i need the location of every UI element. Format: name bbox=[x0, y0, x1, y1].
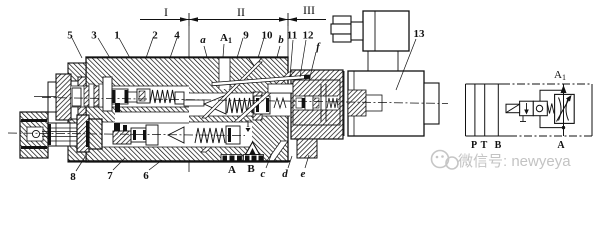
svg-text:e: e bbox=[301, 168, 306, 180]
section line at x=189 bbox=[188, 26, 190, 172]
svg-text:12: 12 bbox=[303, 30, 315, 42]
tall seat sleeve bbox=[103, 77, 112, 111]
lower seat bbox=[226, 126, 240, 144]
svg-text:9: 9 bbox=[243, 30, 249, 42]
A1 flow line bbox=[563, 84, 565, 136]
upper seat flange bbox=[253, 92, 262, 120]
protrusion nut stack bbox=[77, 115, 89, 152]
svg-text:I: I bbox=[164, 5, 168, 19]
svg-text:1: 1 bbox=[114, 30, 120, 42]
left end cap knob bbox=[48, 82, 56, 112]
svg-text:B: B bbox=[495, 140, 502, 151]
upper bore white band right bbox=[189, 93, 290, 116]
upper bore white band left bbox=[71, 86, 189, 107]
svg-text:II: II bbox=[237, 5, 245, 19]
svg-text:a: a bbox=[200, 34, 206, 46]
hydraulic symbol outer box bbox=[466, 84, 593, 136]
svg-text:T: T bbox=[245, 119, 251, 129]
upper spool lands bbox=[112, 89, 128, 104]
valve loop lines bbox=[540, 90, 564, 101]
poppet cone bbox=[204, 95, 226, 114]
solenoid inner parts bbox=[348, 90, 366, 116]
cable gland bbox=[331, 16, 363, 42]
dimension line sections I II III bbox=[140, 13, 326, 26]
check valve in right square bbox=[536, 105, 542, 111]
cap ring hatched bbox=[78, 77, 86, 122]
tank stub below left square bbox=[522, 116, 524, 122]
upper spring 1 bbox=[150, 90, 175, 103]
pilot section III body bbox=[291, 70, 343, 139]
diagonal channel short bbox=[202, 62, 262, 118]
connector neck bbox=[367, 51, 369, 71]
pilot spool bits bbox=[296, 98, 302, 108]
body bottom edge emphasis bbox=[68, 160, 290, 162]
svg-text:4: 4 bbox=[174, 30, 180, 42]
body top edge emphasis bbox=[86, 57, 288, 59]
svg-text:11: 11 bbox=[287, 30, 297, 42]
small spring right bbox=[274, 98, 286, 108]
svg-text:13: 13 bbox=[414, 28, 426, 40]
gland ring stack bbox=[84, 86, 89, 106]
svg-text:7: 7 bbox=[107, 170, 113, 182]
pilot section lower step bbox=[297, 139, 317, 158]
svg-text:A: A bbox=[228, 164, 236, 176]
svg-text:2: 2 bbox=[152, 30, 158, 42]
svg-text:8: 8 bbox=[70, 171, 76, 183]
stub line left of cap bbox=[34, 96, 56, 98]
port line T bbox=[484, 84, 486, 136]
c drain channel bbox=[266, 141, 288, 162]
svg-text:d: d bbox=[282, 168, 288, 180]
svg-text:P: P bbox=[471, 140, 477, 151]
V notch at top bbox=[248, 57, 262, 67]
solenoid symbol bbox=[506, 104, 520, 113]
2/2 valve squares bbox=[520, 101, 534, 116]
svg-text:微信号: newyeya: 微信号: newyeya bbox=[458, 153, 571, 170]
upper plug left bbox=[72, 88, 81, 106]
upper spring 2 bbox=[227, 98, 256, 113]
port A seal strip bbox=[221, 155, 242, 162]
port line P bbox=[474, 84, 476, 136]
svg-text:B: B bbox=[247, 163, 255, 175]
arrow in left square bbox=[526, 103, 528, 114]
spring W bbox=[547, 104, 554, 114]
svg-text:6: 6 bbox=[143, 170, 149, 182]
main valve body block hatched bbox=[86, 57, 288, 162]
svg-text:5: 5 bbox=[67, 30, 73, 42]
watermark icon bbox=[432, 151, 459, 170]
solenoid end cap bbox=[424, 83, 439, 124]
lower-left body extension bbox=[68, 63, 86, 162]
port line B bbox=[497, 84, 499, 136]
b passage channel bbox=[268, 84, 300, 93]
diagonal channel long bbox=[201, 72, 294, 152]
lower bore white band bbox=[100, 122, 252, 147]
solenoid flange gap bbox=[343, 71, 345, 136]
svg-text:A: A bbox=[557, 140, 565, 151]
flow control square bbox=[555, 94, 575, 123]
lower spring bbox=[195, 128, 225, 143]
svg-text:III: III bbox=[303, 3, 315, 17]
upper mid spacer bbox=[175, 92, 184, 104]
dark sleeve bars bbox=[115, 103, 120, 112]
cap ring white bbox=[71, 81, 78, 119]
protrusion tube bbox=[48, 123, 80, 146]
pilot sleeve lines bbox=[320, 84, 322, 122]
left protrusion hex fitting bbox=[20, 112, 48, 158]
mid drain channel bbox=[115, 112, 189, 123]
left end cap flange bbox=[56, 74, 71, 120]
pilot spring bbox=[327, 98, 338, 108]
svg-text:3: 3 bbox=[91, 30, 97, 42]
svg-text:T: T bbox=[481, 140, 488, 151]
port B seal strip bbox=[244, 155, 264, 162]
solenoid body bbox=[348, 71, 424, 136]
upper centerline bbox=[42, 98, 448, 104]
pilot cartridge in section III bbox=[293, 80, 340, 125]
upper seat block bbox=[254, 96, 270, 114]
section line at x=288 bbox=[287, 26, 289, 69]
push rod bbox=[184, 100, 204, 106]
lower centerline bbox=[8, 133, 245, 136]
hex circle bbox=[32, 130, 39, 137]
port B cone bbox=[246, 142, 260, 155]
pilot push-rod wedge bbox=[212, 75, 310, 86]
svg-text:c: c bbox=[261, 168, 266, 180]
connector box bbox=[363, 11, 409, 51]
A1 vertical channel bbox=[219, 57, 230, 89]
svg-text:b: b bbox=[278, 34, 284, 46]
lower spool parts bbox=[113, 125, 184, 145]
